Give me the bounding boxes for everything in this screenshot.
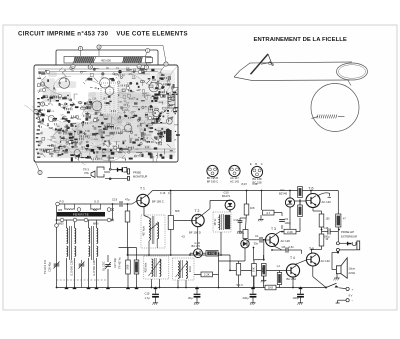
- svg-text:C1: C1: [255, 234, 259, 238]
- svg-text:457 kc/s: 457 kc/s: [142, 225, 146, 235]
- resistor bias T4: [236, 264, 240, 276]
- antenna coil GO: [91, 208, 101, 211]
- wire: T4 base: [230, 269, 286, 271]
- wire: T6 collector: [310, 191, 312, 194]
- svg-text:C8: C8: [282, 245, 286, 249]
- callout 1: [160, 64, 166, 72]
- wire: zener chain: [289, 191, 291, 198]
- resistor above G8: [243, 230, 248, 239]
- svg-text:BF 195 D: BF 195 D: [189, 231, 201, 235]
- callout 12: [43, 84, 49, 88]
- wire: left IF resistors: [127, 248, 129, 261]
- wire: trimmer stubs: [107, 255, 109, 262]
- callout 9: [36, 112, 42, 114]
- capacitor C19 47p: [119, 201, 121, 207]
- svg-text:BZY48: BZY48: [279, 192, 287, 196]
- long leader line top: [99, 45, 163, 47]
- wire: supply top rail: [153, 190, 339, 192]
- capacitor C8 100p: [279, 219, 285, 221]
- svg-text:30µ: 30µ: [188, 296, 193, 300]
- transistor T3: [266, 234, 279, 247]
- wire: C46 horizontal: [322, 231, 328, 233]
- wire: AV line: [219, 260, 246, 262]
- ground 4.7: [258, 217, 264, 222]
- wire: terminal to plug: [339, 242, 347, 244]
- svg-text:C 16: C 16: [160, 192, 166, 195]
- wire: T1 emitter resistor: [170, 191, 172, 216]
- wire to prise moniteur: [48, 177, 92, 179]
- speaker: [336, 266, 341, 274]
- cord link ellipse to drum: [348, 80, 352, 86]
- callout 2: [145, 63, 147, 67]
- resistor mid lower: [319, 234, 324, 246]
- svg-text:8,2V: 8,2V: [242, 182, 248, 186]
- resistor 4.7: [263, 210, 275, 215]
- svg-text:AC 132: AC 132: [321, 259, 331, 263]
- callout 4: [98, 47, 100, 56]
- resistor 4.7K after detector: [206, 250, 218, 256]
- svg-text:100p: 100p: [285, 221, 291, 225]
- svg-text:C20 41p: C20 41p: [48, 262, 52, 272]
- svg-text:T 6: T 6: [309, 187, 314, 191]
- wire: T3 collector up: [276, 232, 281, 235]
- svg-text:5,4 V: 5,4 V: [237, 283, 244, 287]
- svg-text:CIRCUIT IMPRIME n°453 730: CIRCUIT IMPRIME n°453 730 VUE COTE ELEME…: [18, 30, 188, 37]
- svg-text:150: 150: [326, 218, 331, 221]
- circled junction numbers: [56, 202, 60, 206]
- IF transformer 2: [213, 212, 231, 232]
- IF transformer ZF1: [141, 215, 165, 248]
- wire: osc coil stubs: [66, 220, 68, 228]
- wire: HP bottom link: [339, 249, 356, 251]
- svg-text:LOG: LOG: [239, 233, 244, 235]
- dial cord pulley ellipse: [337, 63, 368, 80]
- svg-text:T 5: T 5: [309, 247, 314, 251]
- svg-text:457 kc: 457 kc: [215, 218, 217, 226]
- svg-text:1K8: 1K8: [250, 207, 255, 210]
- svg-text:2.2K: 2.2K: [204, 273, 210, 277]
- pinout AC117: [229, 165, 240, 176]
- capacitor C14 30u: [194, 293, 201, 295]
- diode G8: [241, 240, 249, 248]
- osc transformer A: [67, 228, 68, 244]
- wire: mid supply chain: [246, 191, 248, 205]
- svg-text:6800: 6800: [64, 127, 70, 129]
- svg-text:C15: C15: [145, 292, 150, 296]
- svg-text:C19: C19: [112, 198, 118, 202]
- svg-text:G.O 560 C2B: G.O 560 C2B: [92, 260, 96, 276]
- svg-text:2,5n: 2,5n: [289, 245, 295, 249]
- dial cord strip outline: [234, 62, 352, 81]
- tuning drum circle: [311, 84, 359, 132]
- wire: IFT2 out: [220, 232, 222, 255]
- capacitor C17: [238, 220, 243, 222]
- dial hatched segment left: [73, 57, 96, 64]
- svg-text:G.O 600 C2B: G.O 600 C2B: [70, 260, 74, 276]
- svg-text:TR 457 kc: TR 457 kc: [118, 256, 122, 269]
- transistor T2: [192, 214, 204, 226]
- PCB dial bar outline: [56, 50, 158, 67]
- wire: T1 emitter to ZF1: [143, 207, 145, 216]
- prise HP terminal bottom: [336, 248, 339, 251]
- callout 8: [72, 63, 74, 66]
- resistor 10K: [134, 260, 139, 274]
- svg-text:AC 142: AC 142: [230, 179, 239, 183]
- svg-text:PRISE HP: PRISE HP: [341, 230, 354, 234]
- svg-text:G.O: G.O: [94, 200, 99, 204]
- wire: T1 base resistor: [127, 204, 129, 211]
- PCB main board outline: [34, 65, 178, 162]
- svg-text:G11: G11: [280, 188, 285, 192]
- resistor above zener: [298, 187, 303, 198]
- output hook: [317, 193, 331, 198]
- svg-text:T 08: T 08: [85, 131, 90, 133]
- dial hatched segment right: [122, 57, 143, 64]
- osc transformer B: [89, 228, 90, 244]
- dial small end box: [146, 58, 153, 63]
- svg-text:305: 305: [58, 209, 63, 212]
- diode G10 BA173: [225, 200, 235, 210]
- capacitor C11 100u: [297, 293, 304, 295]
- zener G11 BZY48: [285, 198, 294, 207]
- wire: T6 base: [295, 200, 306, 202]
- wire: G10 to IFT2: [229, 210, 231, 212]
- svg-text:6800: 6800: [93, 222, 99, 225]
- svg-text:BC 28A: BC 28A: [287, 277, 297, 281]
- resistor below zener: [298, 205, 303, 217]
- svg-text:AC 126: AC 126: [281, 239, 291, 243]
- wire: output right: [337, 191, 339, 215]
- trimmer C20: [54, 263, 60, 265]
- wire: T2 collector to G10: [202, 209, 211, 216]
- capacitor C10 240u: [250, 293, 257, 295]
- svg-text:EXTERIEUR: EXTERIEUR: [341, 235, 357, 239]
- pinout BC148: [251, 166, 262, 177]
- svg-text:10K: 10K: [134, 264, 138, 269]
- svg-text:452 kc/s: 452 kc/s: [144, 262, 148, 272]
- wire: C8 vertical: [281, 225, 283, 229]
- x junction marks: [111, 208, 113, 210]
- callout 7: [43, 104, 49, 106]
- jack plug symbol: [91, 167, 127, 180]
- callout 6: [80, 49, 82, 57]
- battery plus terminal: [346, 287, 349, 290]
- wire: ground rail: [57, 287, 266, 289]
- svg-text:4 700: 4 700: [209, 253, 216, 256]
- svg-text:22 kc: 22 kc: [188, 265, 192, 272]
- svg-text:TR AC1 P.O: TR AC1 P.O: [43, 260, 47, 274]
- svg-text:5K6: 5K6: [125, 264, 129, 269]
- wire: volume line vertical: [218, 253, 220, 287]
- svg-text:1A 7: 1A 7: [103, 97, 108, 100]
- svg-text:T 08: T 08: [68, 100, 73, 102]
- capacitor C1 33n: [259, 237, 261, 243]
- svg-text:C46: C46: [324, 226, 329, 230]
- svg-text:BF 195 C: BF 195 C: [207, 179, 218, 183]
- svg-text:+: +: [352, 287, 354, 291]
- resistor T4 bias 68K: [262, 264, 267, 277]
- svg-text:FERRITE: FERRITE: [73, 213, 89, 217]
- wire: ZF coils to rail: [151, 279, 153, 288]
- callout 3: [89, 63, 91, 67]
- svg-text:BA173: BA173: [222, 194, 231, 198]
- wire: HP to speaker: [332, 251, 338, 253]
- IF transformer 3: [144, 256, 169, 279]
- ground speaker: [334, 274, 340, 281]
- wire: T5 emitter: [312, 266, 314, 276]
- svg-text:T 08: T 08: [94, 118, 99, 120]
- svg-text:C18: C18: [253, 182, 258, 186]
- capacitor C8 2.5n: [285, 247, 287, 252]
- svg-text:4TA: 4TA: [84, 171, 89, 175]
- resistor chain mid: [244, 204, 249, 215]
- svg-text:DL CDC: DL CDC: [102, 261, 106, 271]
- svg-text:BA 173: BA 173: [192, 244, 201, 248]
- svg-text:C28: C28: [92, 99, 97, 101]
- svg-text:6800: 6800: [58, 222, 64, 225]
- wire: T2 base: [174, 220, 192, 222]
- svg-text:9 V: 9 V: [349, 293, 353, 297]
- svg-text:300: 300: [93, 209, 98, 212]
- callout 2: [35, 160, 41, 173]
- junction dot HP: [337, 251, 339, 253]
- svg-text:100µ: 100µ: [293, 296, 299, 300]
- svg-text:C17: C17: [234, 218, 239, 222]
- svg-text:1K8: 1K8: [268, 286, 273, 290]
- svg-text:T 1: T 1: [140, 186, 145, 190]
- svg-text:2.2K: 2.2K: [287, 230, 293, 234]
- wire: tuning rail GO: [57, 219, 113, 221]
- resistor emitter T1: [168, 216, 173, 230]
- battery minus terminal: [346, 299, 349, 302]
- wire: tuning rail PO: [57, 203, 119, 205]
- callout 1: [145, 51, 148, 57]
- resistor T6 emitter: [319, 214, 324, 227]
- svg-text:240µ: 240µ: [243, 296, 249, 300]
- resistor T4 bias 10K: [252, 264, 257, 277]
- wire: electrolytic branches: [155, 288, 157, 294]
- resistor output dark: [336, 214, 341, 227]
- svg-text:MONITEUR: MONITEUR: [133, 175, 147, 179]
- rail T junction marks: [65, 288, 303, 290]
- svg-text:1A 7: 1A 7: [62, 117, 67, 120]
- svg-text:10K: 10K: [251, 267, 255, 272]
- prise HP terminal top: [336, 242, 339, 245]
- svg-text:PRISE: PRISE: [133, 171, 141, 175]
- detector diode G9: [194, 249, 203, 258]
- resistor 2.2K low: [201, 272, 213, 277]
- transistor T5: [307, 253, 320, 266]
- svg-text:BF 195 C: BF 195 C: [152, 199, 164, 203]
- svg-text:E B C: E B C: [250, 162, 264, 166]
- moniteur plug tip: [118, 167, 123, 172]
- cord tension spring: [312, 117, 345, 119]
- tuning gang dashed link: [57, 279, 109, 281]
- svg-text:C27 30p: C27 30p: [113, 258, 117, 268]
- wire: T4 emitter: [292, 277, 294, 287]
- svg-text:4.7: 4.7: [266, 211, 270, 215]
- svg-text:C28: C28: [49, 128, 54, 130]
- trimmer DL: [105, 264, 111, 266]
- trimmer C22: [79, 263, 85, 265]
- wire: C8 coupling: [274, 246, 282, 250]
- dial pointer: [251, 54, 274, 74]
- wire: detector line: [148, 241, 150, 255]
- svg-text:G10: G10: [223, 190, 229, 194]
- jack HP plug: [348, 242, 352, 246]
- capacitor C46 500u: [327, 229, 329, 235]
- resistor 5K6: [126, 260, 131, 274]
- resistor 2.2K: [284, 229, 296, 234]
- svg-text:0,1: 0,1: [168, 192, 172, 195]
- junction dots: [56, 190, 340, 289]
- svg-text:P.O: P.O: [60, 200, 64, 204]
- transistor T4: [286, 264, 299, 277]
- svg-text:68K: 68K: [261, 267, 265, 272]
- svg-text:1,7µ: 1,7µ: [145, 296, 151, 300]
- svg-text:453.630: 453.630: [101, 59, 112, 63]
- wire: C1 to T3 base: [248, 239, 259, 241]
- resistor 1K8 in rail: [265, 285, 276, 290]
- svg-text:6K8: 6K8: [175, 210, 180, 213]
- wire: left vertical: [56, 204, 58, 288]
- resistor base T1: [125, 211, 130, 222]
- resistor emitter T4: [277, 273, 281, 285]
- svg-text:1A 7: 1A 7: [40, 109, 45, 112]
- svg-text:47p: 47p: [125, 198, 130, 202]
- svg-text:−: −: [352, 299, 354, 303]
- svg-text:TR 3: TR 3: [83, 168, 89, 172]
- transistor T6: [306, 194, 320, 208]
- svg-text:ENTRAINEMENT DE LA FICELLE: ENTRAINEMENT DE LA FICELLE: [254, 37, 347, 43]
- callout 5: [138, 63, 140, 66]
- pinout BF195: [207, 165, 218, 176]
- wire: T2 emitter: [197, 227, 199, 249]
- svg-text:AC 142: AC 142: [322, 200, 332, 204]
- capacitor C15: [152, 293, 159, 295]
- PCB component clutter: [25, 66, 180, 165]
- svg-text:2x5Ω: 2x5Ω: [349, 271, 355, 275]
- svg-text:10cm: 10cm: [349, 266, 356, 270]
- wire: rail link: [112, 204, 114, 220]
- wire: T4 collector to T5 base: [295, 260, 307, 265]
- switch: [325, 287, 327, 289]
- svg-text:T 2: T 2: [195, 209, 200, 213]
- svg-text:33n: 33n: [254, 242, 259, 246]
- dial scale inner bar: [64, 57, 151, 64]
- wire: bias divider: [253, 248, 255, 261]
- svg-text:T 3: T 3: [271, 227, 276, 231]
- wire: T6 emitter chain: [312, 208, 314, 212]
- ferrite rod: [57, 212, 105, 217]
- svg-text:R18: R18: [73, 147, 78, 149]
- wire: 4R7 resistor stub: [261, 191, 263, 211]
- svg-text:C9: C9: [285, 217, 289, 221]
- transistor T1: [137, 194, 149, 206]
- svg-text:T 4: T 4: [290, 256, 295, 260]
- svg-text:R 22: R 22: [78, 102, 84, 104]
- wire: G9 branch: [189, 253, 191, 255]
- IF transformer 4: [173, 258, 195, 280]
- antenna coil PO: [65, 208, 75, 211]
